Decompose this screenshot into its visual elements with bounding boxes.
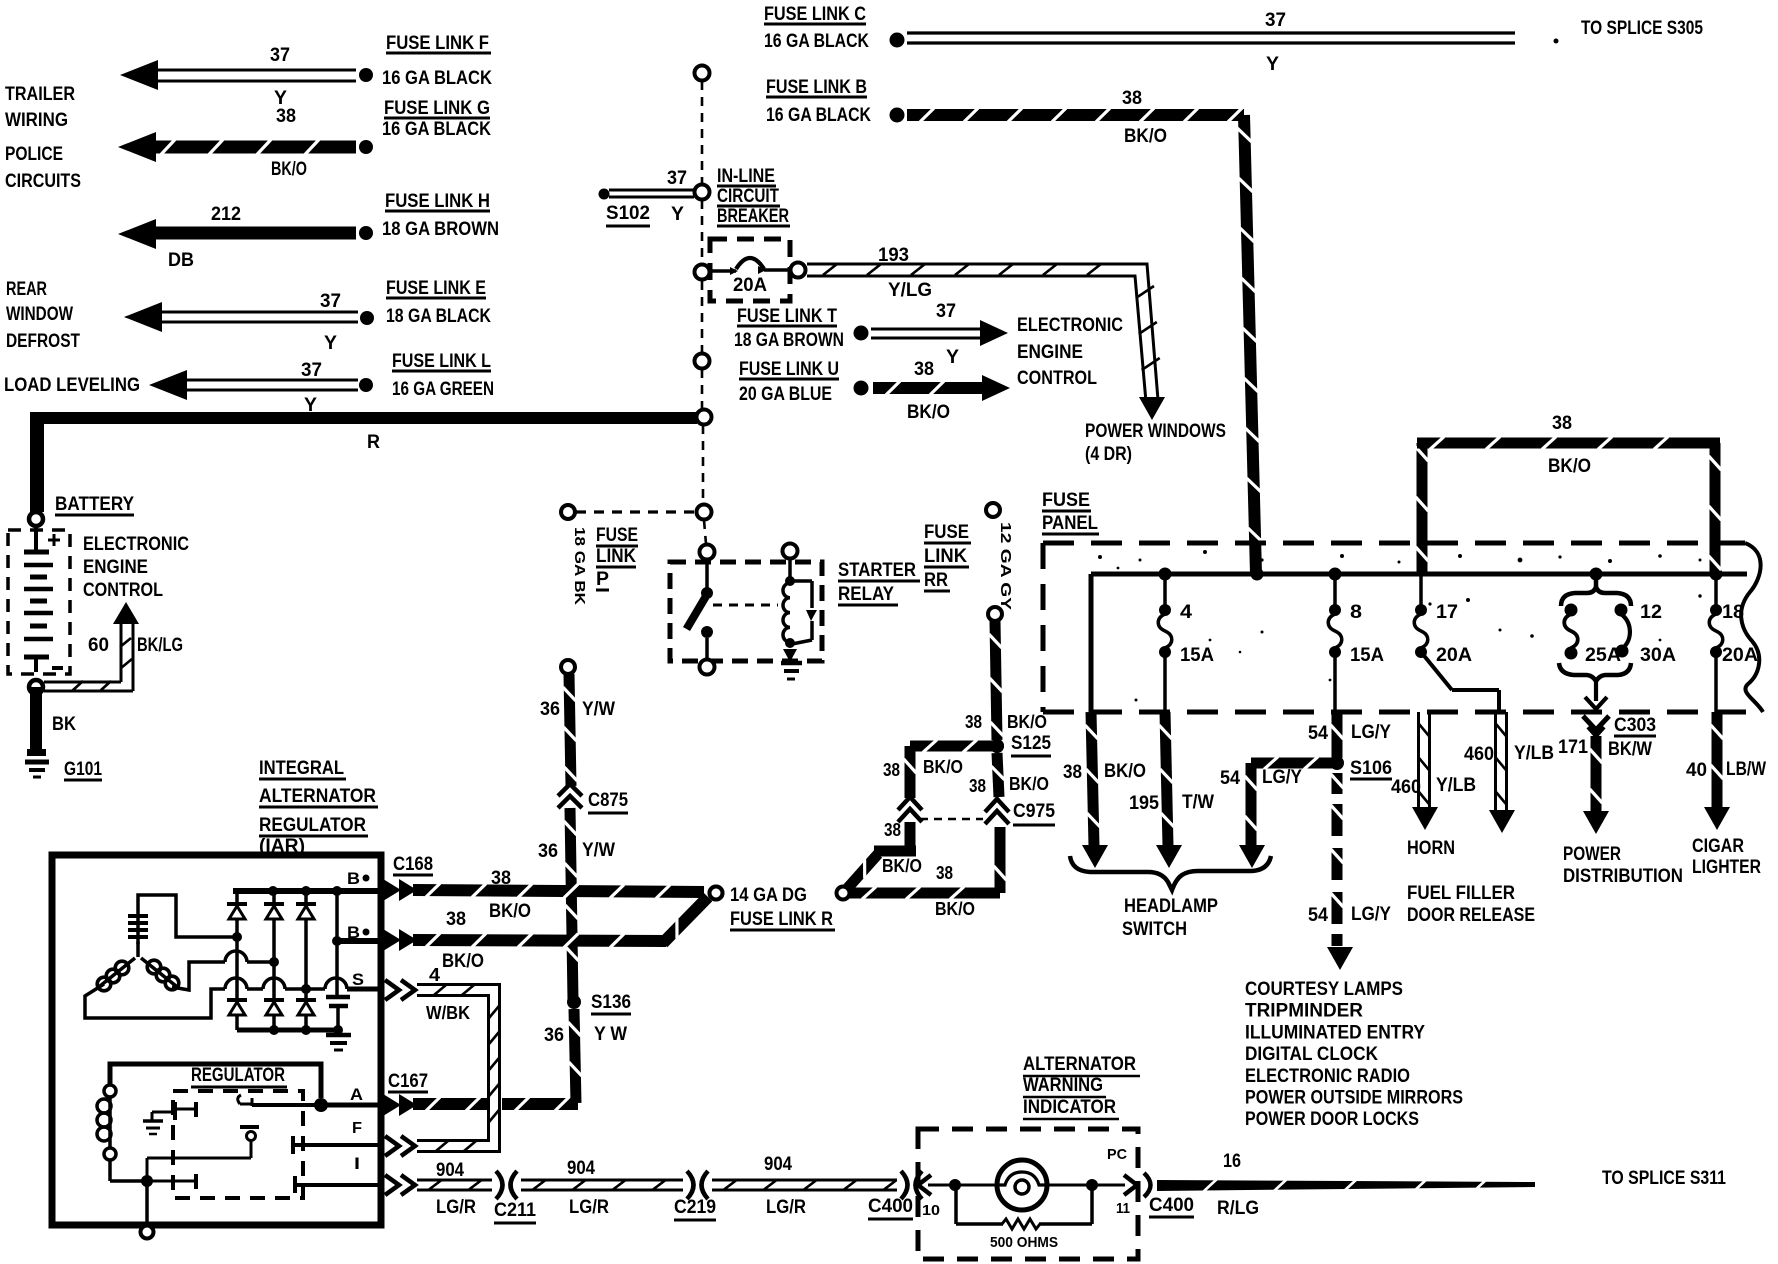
svg-text:HORN: HORN bbox=[1407, 838, 1455, 859]
svg-text:C400: C400 bbox=[1149, 1195, 1194, 1216]
svg-text:11: 11 bbox=[1116, 1200, 1130, 1217]
svg-text:BATTERY: BATTERY bbox=[55, 494, 134, 515]
wire 171 BK/W to power distribution bbox=[1591, 736, 1602, 812]
battery plus sign bbox=[48, 539, 60, 542]
wire 38 BK/O bottom run to C975 right bbox=[849, 888, 1000, 899]
wire A terminal to S136 bbox=[413, 1098, 487, 1110]
svg-text:WARNING: WARNING bbox=[1023, 1075, 1103, 1096]
svg-text:ILLUMINATED ENTRY: ILLUMINATED ENTRY bbox=[1245, 1022, 1425, 1043]
svg-text:14 GA DG: 14 GA DG bbox=[730, 885, 807, 906]
svg-text:30A: 30A bbox=[1640, 645, 1676, 666]
wire T2 emitter to ground dot bbox=[147, 1157, 251, 1160]
svg-text:BK/W: BK/W bbox=[1608, 739, 1652, 760]
wire I terminal bbox=[295, 1183, 381, 1187]
fuse 8 15A bbox=[1333, 574, 1337, 610]
connector A terminal chevrons bbox=[383, 1094, 401, 1116]
wire S sense with hop over B+ bbox=[306, 987, 325, 991]
svg-text:BK/O: BK/O bbox=[1124, 126, 1167, 147]
wire 16 R/LG to splice S311 bbox=[1157, 1180, 1535, 1191]
svg-text:ELECTRONIC: ELECTRONIC bbox=[83, 534, 189, 555]
svg-text:POWER WINDOWS: POWER WINDOWS bbox=[1085, 421, 1226, 442]
svg-text:Y: Y bbox=[324, 333, 337, 354]
regulator F contact bbox=[291, 1136, 295, 1154]
node S106 splice dot bbox=[1330, 756, 1344, 770]
svg-text:DOOR RELEASE: DOOR RELEASE bbox=[1407, 905, 1535, 926]
svg-text:38: 38 bbox=[1122, 88, 1142, 109]
battery dashed outline bbox=[8, 530, 70, 674]
svg-text:37: 37 bbox=[301, 360, 322, 381]
svg-text:8: 8 bbox=[1350, 602, 1362, 623]
wire B+ vertical with capacitor bbox=[335, 891, 339, 997]
connector B+ first chevrons bbox=[383, 879, 401, 901]
svg-text:20A: 20A bbox=[1436, 645, 1472, 666]
svg-text:TO SPLICE S305: TO SPLICE S305 bbox=[1581, 18, 1703, 39]
node ring dashed line at R wire bbox=[697, 410, 712, 425]
svg-text:BK/O: BK/O bbox=[935, 899, 975, 919]
wire 38 BK/O from S125 down to C975 right bbox=[992, 753, 1005, 797]
node ring fuse link P eyelet bbox=[561, 505, 575, 519]
svg-text:SWITCH: SWITCH bbox=[1122, 919, 1187, 940]
diode lower 1 bbox=[227, 998, 247, 1002]
svg-text:S136: S136 bbox=[591, 992, 631, 1013]
svg-text:RELAY: RELAY bbox=[838, 584, 894, 605]
svg-text:BK/O: BK/O bbox=[1007, 712, 1047, 732]
svg-text:904: 904 bbox=[436, 1160, 464, 1181]
svg-text:LINK: LINK bbox=[596, 546, 636, 567]
fuse panel scan speckles bbox=[1098, 555, 1102, 559]
svg-text:C168: C168 bbox=[393, 854, 433, 875]
node ring relay switch input bbox=[700, 545, 715, 560]
node eyelet ring right of fuse link R bbox=[837, 887, 850, 900]
node A junction dot bbox=[314, 1098, 328, 1112]
svg-text:Y/LG: Y/LG bbox=[888, 280, 932, 301]
fuse 4 15A bbox=[1163, 574, 1167, 610]
svg-text:R/LG: R/LG bbox=[1217, 1198, 1259, 1219]
svg-text:FUSE LINK F: FUSE LINK F bbox=[386, 33, 489, 54]
svg-text:904: 904 bbox=[567, 1158, 595, 1179]
diode upper 3 bbox=[304, 894, 308, 904]
svg-text:Y: Y bbox=[1266, 54, 1279, 75]
svg-text:16 GA BLACK: 16 GA BLACK bbox=[382, 68, 492, 89]
node battery negative terminal ring bbox=[29, 680, 43, 694]
diode upper 2 bbox=[272, 894, 276, 904]
stator phase 1 wire bbox=[138, 895, 233, 937]
node regulator ground dot bbox=[141, 1175, 153, 1187]
connector C975 left half bbox=[898, 797, 922, 810]
svg-text:IN-LINE: IN-LINE bbox=[717, 166, 775, 187]
svg-text:S125: S125 bbox=[1011, 733, 1051, 754]
svg-text:TO SPLICE S311: TO SPLICE S311 bbox=[1602, 1168, 1726, 1189]
svg-text:P: P bbox=[596, 569, 609, 590]
connector C975 right half bbox=[985, 799, 1009, 812]
node S102 splice dot bbox=[599, 189, 610, 200]
wire dashed fuse link P horizontal bbox=[576, 510, 694, 513]
connector S terminal chevrons bbox=[385, 980, 399, 1000]
svg-text:38: 38 bbox=[1552, 413, 1572, 434]
fuse panel dashed top border bbox=[1043, 541, 1745, 546]
node fuse link B eyelet dot bbox=[890, 108, 905, 123]
svg-text:I: I bbox=[354, 1154, 360, 1173]
wire 195 T/W to headlamp switch bbox=[1160, 712, 1174, 846]
svg-text:20 GA BLUE: 20 GA BLUE bbox=[739, 384, 832, 405]
node ring fuse link RR eyelet bbox=[988, 607, 1002, 621]
connector F terminal chevrons bbox=[385, 1136, 399, 1156]
wire fuse link F arrow to trailer wiring bbox=[120, 60, 158, 90]
svg-text:Y/W: Y/W bbox=[582, 840, 615, 861]
battery cells bbox=[34, 526, 38, 550]
fuse panel bus bar bbox=[1091, 572, 1747, 577]
stator phase 2 wire bbox=[172, 962, 225, 990]
wire 37 Y to splice S305 bbox=[907, 31, 1515, 34]
svg-text:INDICATOR: INDICATOR bbox=[1023, 1097, 1116, 1118]
svg-text:POLICE: POLICE bbox=[5, 144, 63, 165]
svg-text:PANEL: PANEL bbox=[1042, 513, 1098, 534]
wire diode column2 mid bbox=[272, 935, 276, 1000]
wire 904 LG/R segment 3 bbox=[712, 1189, 897, 1192]
svg-text:S: S bbox=[352, 970, 364, 989]
wire 460 Y/LB to fuel filler door release bbox=[1494, 712, 1497, 811]
svg-text:38: 38 bbox=[914, 359, 934, 380]
indicator lamp bbox=[997, 1160, 1047, 1210]
svg-text:CIRCUITS: CIRCUITS bbox=[5, 171, 81, 192]
node ring on dashed line at S102 bbox=[695, 185, 710, 200]
svg-text:DB: DB bbox=[168, 250, 194, 271]
svg-text:LG/R: LG/R bbox=[436, 1197, 476, 1218]
svg-text:DISTRIBUTION: DISTRIBUTION bbox=[1563, 866, 1683, 887]
relay ground bbox=[783, 649, 797, 662]
node fuse link T eyelet dot bbox=[854, 326, 869, 341]
stator coil left bbox=[100, 958, 135, 986]
node bottom rail dots bbox=[269, 1025, 279, 1035]
svg-text:60: 60 bbox=[88, 635, 109, 656]
node top rail dots bbox=[268, 886, 278, 896]
svg-text:36: 36 bbox=[540, 699, 560, 720]
svg-text:37: 37 bbox=[936, 301, 956, 322]
svg-text:36: 36 bbox=[544, 1025, 564, 1046]
svg-text:C400: C400 bbox=[868, 1196, 913, 1217]
svg-text:G101: G101 bbox=[64, 759, 102, 780]
connector C875 bbox=[558, 784, 582, 796]
svg-text:C211: C211 bbox=[494, 1200, 536, 1221]
svg-text:18 GA BROWN: 18 GA BROWN bbox=[382, 219, 499, 240]
svg-text:460: 460 bbox=[1391, 777, 1421, 798]
node fuse link U eyelet dot bbox=[854, 381, 869, 396]
svg-text:54: 54 bbox=[1308, 905, 1328, 926]
svg-text:BK/O: BK/O bbox=[882, 856, 922, 876]
node ring breaker left terminal bbox=[695, 265, 710, 280]
diode lower 3 bbox=[296, 998, 316, 1002]
wire diode column3 mid bbox=[304, 935, 308, 1000]
svg-text:38: 38 bbox=[446, 909, 466, 930]
wire 460 Y/LB to horn bbox=[1417, 712, 1420, 808]
connector I terminal chevrons bbox=[385, 1175, 399, 1195]
svg-text:460: 460 bbox=[1464, 744, 1494, 765]
svg-text:S102: S102 bbox=[606, 203, 650, 224]
wire below C975 left to fuse link R eyelet bbox=[905, 822, 916, 846]
svg-text:20A: 20A bbox=[1722, 645, 1758, 666]
svg-text:(4 DR): (4 DR) bbox=[1085, 444, 1132, 465]
diode bridge bottom rail bbox=[237, 1028, 338, 1033]
svg-text:T/W: T/W bbox=[1182, 792, 1214, 813]
connector C975 dashed tie line bbox=[920, 818, 983, 821]
svg-text:16 GA BLACK: 16 GA BLACK bbox=[382, 119, 491, 140]
svg-text:16: 16 bbox=[1223, 1151, 1241, 1172]
wire 4 W/BK loop bbox=[417, 985, 500, 1152]
svg-text:FUSE: FUSE bbox=[924, 522, 969, 543]
svg-text:TRIPMINDER: TRIPMINDER bbox=[1245, 1001, 1363, 1022]
svg-text:54: 54 bbox=[1220, 768, 1240, 789]
svg-text:ALTERNATOR: ALTERNATOR bbox=[259, 786, 376, 807]
node ring relay switch output bbox=[700, 660, 715, 675]
svg-text:FUSE LINK B: FUSE LINK B bbox=[766, 77, 867, 98]
resistor 500 ohms shunt bbox=[954, 1185, 958, 1224]
wire F terminal bbox=[293, 1143, 381, 1147]
svg-text:37: 37 bbox=[320, 291, 341, 312]
fuse panel torn right edge bbox=[1741, 543, 1763, 712]
svg-text:COURTESY LAMPS: COURTESY LAMPS bbox=[1245, 979, 1403, 1000]
svg-text:171: 171 bbox=[1558, 737, 1588, 758]
wire 38 BK/O jumper loop over fuse panel bbox=[1417, 443, 1428, 574]
node phase3 dot bbox=[301, 984, 311, 994]
wire fuse link E arrow to rear window defrost bbox=[124, 302, 162, 332]
svg-text:ENGINE: ENGINE bbox=[83, 557, 148, 578]
svg-text:POWER DOOR LOCKS: POWER DOOR LOCKS bbox=[1245, 1109, 1419, 1130]
svg-text:38: 38 bbox=[884, 820, 901, 840]
svg-text:16 GA BLACK: 16 GA BLACK bbox=[766, 105, 871, 126]
node phase1 dot bbox=[232, 932, 242, 942]
fuses 12 25A 30A fork bbox=[1594, 574, 1599, 589]
svg-text:17: 17 bbox=[1436, 602, 1458, 623]
transistor T2 bbox=[238, 1095, 241, 1104]
svg-text:C219: C219 bbox=[674, 1197, 716, 1218]
starter relay dashed box bbox=[670, 562, 822, 661]
svg-text:LIGHTER: LIGHTER bbox=[1692, 857, 1761, 878]
stator phase 3 wire bbox=[85, 984, 225, 1018]
svg-text:FUSE LINK U: FUSE LINK U bbox=[739, 359, 839, 380]
wire BK battery ground bbox=[30, 687, 42, 753]
svg-text:BK/O: BK/O bbox=[271, 159, 307, 180]
fuse panel dashed bottom border bbox=[1043, 710, 1763, 715]
fuse 18 20A bbox=[1714, 574, 1718, 610]
headlamp switch brace bbox=[1070, 856, 1271, 890]
wire fuse link H arrow bbox=[118, 219, 156, 249]
node brush ring lower bbox=[104, 1148, 116, 1160]
svg-text:10: 10 bbox=[922, 1202, 940, 1219]
wire 38 BK/O left branch from S125 bbox=[910, 741, 997, 752]
svg-text:FUSE LINK G: FUSE LINK G bbox=[384, 98, 490, 119]
svg-text:16 GA BLACK: 16 GA BLACK bbox=[764, 31, 869, 52]
wire 12 GA GY down to S125 bbox=[990, 621, 1003, 740]
svg-text:Y: Y bbox=[946, 347, 959, 368]
node ring fuse link P lower eyelet bbox=[561, 660, 575, 674]
node alternator case ground ring bbox=[141, 1226, 154, 1239]
svg-text:LG/Y: LG/Y bbox=[1351, 722, 1391, 743]
diode bridge top rail bbox=[233, 888, 381, 894]
svg-text:195: 195 bbox=[1129, 793, 1159, 814]
svg-text:C975: C975 bbox=[1013, 801, 1055, 822]
svg-text:LINK: LINK bbox=[924, 546, 967, 567]
wire 37 Y from S102 bbox=[609, 189, 694, 192]
connector at indicator left edge bbox=[918, 1175, 931, 1195]
regulator dashed box bbox=[173, 1091, 303, 1198]
svg-text:500 OHMS: 500 OHMS bbox=[990, 1234, 1058, 1251]
svg-text:HEADLAMP: HEADLAMP bbox=[1124, 896, 1218, 917]
svg-text:INTEGRAL: INTEGRAL bbox=[259, 758, 344, 779]
svg-text:BK/O: BK/O bbox=[442, 951, 484, 972]
svg-text:C167: C167 bbox=[388, 1071, 428, 1092]
ground G101 bbox=[27, 749, 46, 756]
wire lower brush to ground point bbox=[108, 1160, 112, 1181]
capacitor to ground bbox=[326, 995, 350, 1000]
svg-text:20A: 20A bbox=[733, 275, 767, 296]
node ring dashed line above fuse link P bbox=[695, 354, 710, 369]
connector C211 bbox=[496, 1171, 503, 1199]
svg-text:4: 4 bbox=[429, 965, 440, 985]
wire indicator internal left bbox=[928, 1184, 997, 1187]
stator field coil top bbox=[136, 912, 140, 944]
svg-text:PC: PC bbox=[1107, 1146, 1127, 1163]
svg-text:38: 38 bbox=[1063, 762, 1082, 783]
svg-text:FUSE LINK E: FUSE LINK E bbox=[386, 278, 486, 299]
svg-text:FUSE LINK T: FUSE LINK T bbox=[737, 306, 837, 327]
stator Y junction bbox=[136, 942, 140, 957]
svg-text:BK/O: BK/O bbox=[1548, 456, 1591, 477]
svg-text:STARTER: STARTER bbox=[838, 560, 916, 581]
wire from fuse 17 to fuel filler feed bbox=[1421, 652, 1452, 690]
svg-text:LG/Y: LG/Y bbox=[1351, 904, 1391, 925]
svg-text:B: B bbox=[347, 923, 360, 942]
svg-text:ALTERNATOR: ALTERNATOR bbox=[1023, 1054, 1136, 1075]
node ring top of dashed line bbox=[695, 66, 710, 81]
svg-text:25A: 25A bbox=[1585, 645, 1621, 666]
svg-text:DIGITAL CLOCK: DIGITAL CLOCK bbox=[1245, 1044, 1378, 1065]
wire 36 Y/W lower segment to alternator A circuit bbox=[569, 1009, 582, 1103]
starter relay switch bbox=[705, 560, 709, 589]
svg-text:BK: BK bbox=[52, 714, 76, 735]
svg-text:Y/W: Y/W bbox=[582, 699, 615, 720]
svg-text:18 GA BK: 18 GA BK bbox=[571, 527, 588, 605]
svg-text:LG/R: LG/R bbox=[766, 1197, 806, 1218]
svg-text:CIGAR: CIGAR bbox=[1692, 836, 1744, 857]
wire 38 BK/O short arrow bbox=[873, 382, 983, 394]
wire R battery feed bbox=[30, 412, 697, 512]
wire 38 BK/O from fuse link B to fuse panel bbox=[907, 109, 1244, 121]
alternator IAR box outline bbox=[52, 855, 381, 1225]
svg-text:904: 904 bbox=[764, 1154, 792, 1175]
svg-text:BK/O: BK/O bbox=[489, 901, 531, 922]
wire 904 LG/R segment 2 bbox=[521, 1189, 683, 1192]
svg-text:18 GA BROWN: 18 GA BROWN bbox=[734, 330, 844, 351]
svg-text:CIRCUIT: CIRCUIT bbox=[717, 186, 779, 207]
svg-text:BK/O: BK/O bbox=[923, 757, 963, 777]
svg-text:LG/R: LG/R bbox=[569, 1197, 609, 1218]
svg-text:18: 18 bbox=[1722, 602, 1744, 623]
svg-text:CONTROL: CONTROL bbox=[1017, 368, 1097, 389]
connector C303 bbox=[1583, 716, 1609, 730]
svg-text:212: 212 bbox=[211, 204, 241, 225]
connector C219 bbox=[687, 1171, 694, 1199]
speck at wire end bbox=[1554, 39, 1559, 44]
svg-text:ENGINE: ENGINE bbox=[1017, 342, 1083, 363]
svg-text:C303: C303 bbox=[1614, 715, 1656, 736]
svg-text:BK/O: BK/O bbox=[1009, 774, 1049, 794]
alternator internal ground bbox=[326, 1033, 351, 1038]
svg-text:S106: S106 bbox=[1350, 758, 1392, 779]
svg-text:FUSE LINK R: FUSE LINK R bbox=[730, 909, 833, 930]
svg-text:54: 54 bbox=[1308, 723, 1328, 744]
svg-text:FUSE LINK L: FUSE LINK L bbox=[392, 351, 491, 372]
svg-text:FUSE LINK C: FUSE LINK C bbox=[764, 4, 866, 25]
svg-text:BK/O: BK/O bbox=[1104, 761, 1146, 782]
connector at indicator right edge bbox=[1124, 1175, 1137, 1195]
in-line circuit breaker dashed box bbox=[710, 239, 790, 301]
hop phase3 over column2 bbox=[263, 978, 285, 989]
svg-text:C875: C875 bbox=[588, 790, 628, 811]
svg-text:LOAD LEVELING: LOAD LEVELING bbox=[4, 375, 140, 396]
alternator warning indicator dashed box bbox=[918, 1129, 1138, 1259]
node ring fuse link P junction bbox=[697, 505, 712, 520]
node phase2 dot bbox=[269, 957, 279, 967]
diode lower 2 bbox=[264, 998, 284, 1002]
wire T2 collector to A junction bbox=[252, 1103, 318, 1107]
wire 38 BK/O to headlamp switch bbox=[1086, 712, 1100, 846]
svg-text:BK/O: BK/O bbox=[907, 402, 950, 423]
svg-text:Y: Y bbox=[671, 204, 684, 225]
svg-text:A: A bbox=[350, 1085, 363, 1104]
node fuse link C eyelet dot bbox=[890, 33, 905, 48]
connector C400 left bbox=[901, 1171, 908, 1199]
regulator I contact bbox=[293, 1176, 297, 1193]
svg-text:38: 38 bbox=[883, 760, 900, 780]
svg-text:REAR: REAR bbox=[6, 279, 47, 300]
node B+ stub dot bbox=[332, 936, 342, 946]
wire 54 LG/Y left branch to headlamp switch bbox=[1251, 758, 1337, 769]
svg-text:193: 193 bbox=[878, 245, 909, 266]
node bus taps bbox=[1159, 568, 1172, 581]
regulator internal ground bbox=[143, 1119, 163, 1123]
svg-text:38: 38 bbox=[491, 868, 511, 889]
starter relay coil bbox=[788, 558, 792, 581]
svg-text:37: 37 bbox=[1265, 10, 1286, 31]
wire 40 LB/W to cigar lighter bbox=[1712, 712, 1723, 808]
transistor T1 bbox=[173, 1102, 177, 1120]
node fuse link R eyelet ring bbox=[710, 887, 723, 900]
wire 37 Y arrow to electronic engine control bbox=[871, 328, 981, 331]
wire 193 Y/LG from breaker to power windows bbox=[807, 264, 1158, 400]
svg-text:15A: 15A bbox=[1350, 645, 1384, 666]
wire 38 BK/O alternator B+ 1 bbox=[413, 884, 704, 898]
regulator field supply wire from A bbox=[110, 1064, 321, 1098]
svg-text:ELECTRONIC: ELECTRONIC bbox=[1017, 315, 1123, 336]
diode upper 1 bbox=[235, 894, 239, 904]
svg-text:LG/Y: LG/Y bbox=[1262, 767, 1302, 788]
wire 904 LG/R segment 1 bbox=[417, 1189, 492, 1192]
svg-text:REGULATOR: REGULATOR bbox=[191, 1065, 285, 1086]
svg-text:40: 40 bbox=[1686, 760, 1707, 781]
svg-text:WINDOW: WINDOW bbox=[6, 304, 73, 325]
svg-text:WIRING: WIRING bbox=[5, 110, 68, 131]
svg-text:Y W: Y W bbox=[594, 1024, 627, 1045]
svg-text:REGULATOR: REGULATOR bbox=[259, 815, 366, 836]
wire 36 Y/W middle segment bbox=[565, 808, 579, 1000]
wire 54 LG/Y from fuse 8 bbox=[1332, 712, 1343, 758]
battery minus sign bbox=[52, 666, 63, 670]
svg-text:15A: 15A bbox=[1180, 645, 1214, 666]
svg-text:POWER OUTSIDE MIRRORS: POWER OUTSIDE MIRRORS bbox=[1245, 1088, 1463, 1109]
svg-text:W/BK: W/BK bbox=[426, 1003, 470, 1023]
relay mechanical dashed link bbox=[713, 604, 778, 607]
relay coil suppression diode branch bbox=[790, 579, 812, 583]
